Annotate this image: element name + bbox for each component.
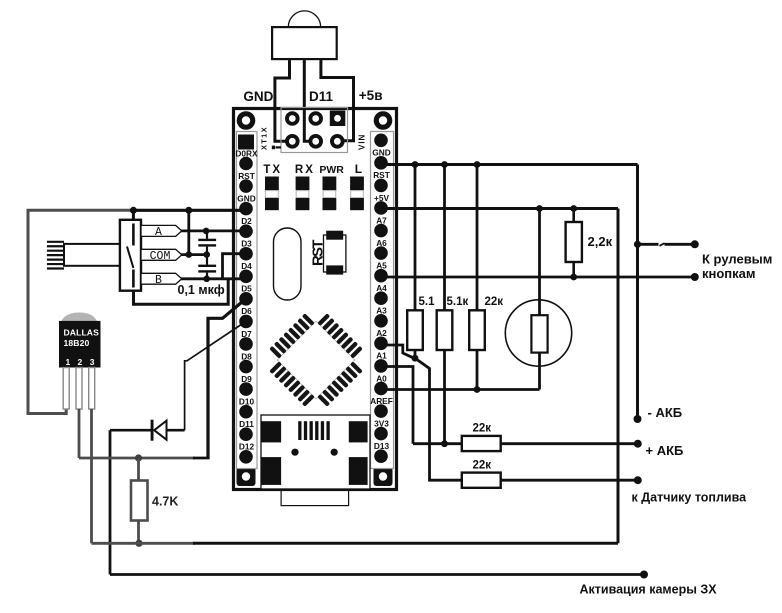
wire COM to cap midpoint [181, 253, 207, 256]
wire A0 rail to fuel gauge [381, 388, 540, 391]
capacitor C1 0,1 мкф (A-COM) [206, 231, 208, 239]
wire encoder bottom to B/D4 net [134, 279, 229, 305]
right pin A7 [374, 224, 388, 238]
left pin D5 [239, 292, 253, 306]
junction dot encoder frame to GND rail [130, 207, 137, 214]
wire 18B20 pin3 (+5V) down [90, 409, 93, 543]
crystal oval Y1 [274, 228, 302, 300]
wire GND rail left (gray): 18B20 pin1 up and over to board GND pin [28, 210, 135, 413]
terminal dot - АКБ [634, 415, 642, 423]
resistor R7 22к (fuel sender) [462, 473, 501, 488]
resistor R5 2,2к [572, 209, 575, 223]
wire encoder frame stub [132, 210, 135, 221]
junction dot COM vertical on GND rail [185, 207, 192, 214]
wire B to D4 [181, 277, 246, 280]
wire A1 to +АКБ 22к [381, 367, 413, 444]
wire +5V bottom line (gray part) [92, 542, 196, 545]
svg-text:2: 2 [78, 357, 83, 367]
ICSP pin 6 (bottom row) [330, 134, 345, 149]
svg-text:5.1к: 5.1к [447, 296, 469, 308]
junction dot B / C2 bottom [203, 276, 210, 283]
resistor R3 5.1к [443, 165, 446, 311]
svg-text:1: 1 [66, 357, 71, 367]
junction dot DQ / 4.7K top [135, 454, 142, 461]
right pin strip outline [371, 132, 394, 469]
junction dot R3 bottom on +АКБ line [441, 440, 448, 447]
wire A5 rail to steering line 2 [381, 276, 695, 279]
svg-text:кнопкам: кнопкам [702, 266, 756, 281]
USB tongue [281, 491, 349, 506]
svg-text:RX: RX [295, 164, 315, 176]
left pin RST [239, 179, 253, 193]
right pin AREF [374, 404, 388, 418]
LED PWR [323, 177, 337, 191]
LED L [350, 177, 364, 191]
svg-text:Активация камеры ЗХ: Активация камеры ЗХ [580, 583, 718, 597]
left pin D9 [239, 382, 253, 396]
LED RX [296, 177, 310, 191]
MCU U1 (QFP, rotated 45) [258, 302, 374, 418]
Arduino Nano board outline [234, 109, 397, 490]
LED TX [265, 177, 279, 191]
svg-text:PWR: PWR [319, 164, 344, 176]
junction dot 4.7K bottom / +5V line [135, 540, 142, 547]
mounting hole top-right [374, 111, 393, 130]
right pin RST [374, 179, 388, 193]
encoder terminal A arrow [141, 225, 182, 236]
wire A2 to R2 bottom [381, 345, 414, 358]
svg-text:B: B [155, 274, 162, 287]
left pin D4 [239, 270, 253, 284]
left pin D0RX [239, 157, 253, 171]
right pin GND [374, 156, 388, 170]
right pin D13 [374, 449, 388, 463]
sensor leg 2 [76, 368, 82, 410]
right pin +5V [374, 201, 388, 215]
right pin VIN [374, 134, 388, 148]
svg-text:22к: 22к [485, 296, 504, 308]
junction dot A2 / R2 / fuel divider [412, 355, 419, 362]
junction dot GND/R2 [412, 161, 419, 168]
wire +5V riser down [617, 209, 620, 544]
svg-text:18B20: 18B20 [64, 338, 90, 348]
wire GND riser down right side [636, 165, 639, 420]
junction dot A0 / R4 bottom [474, 386, 481, 393]
svg-text:3: 3 [90, 357, 95, 367]
svg-text:5.1: 5.1 [419, 296, 436, 308]
wire DQ horizontal (gray) [79, 457, 195, 460]
fuel gauge M1 (circle with resistor) [505, 300, 571, 366]
ICSP pin 4 (bottom row) [308, 134, 323, 149]
svg-text:COM: COM [150, 250, 171, 263]
left pin D12 [239, 450, 253, 464]
right pin A3 [374, 314, 388, 328]
USB connector J1 [261, 415, 370, 489]
junction dot COM / caps midpoint [203, 251, 210, 258]
right pin A1 [374, 359, 388, 373]
encoder wiper lever [127, 247, 133, 269]
junction dot A / C1 top [203, 228, 210, 235]
wire IR GND to ICSP pin [275, 61, 290, 141]
junction dot A5 / R5 bottom [570, 274, 577, 281]
junction dot +5V / R5 2,2к [570, 205, 577, 212]
wire diagonal to fuel sender divider [415, 358, 462, 480]
encoder contact bar upper [132, 224, 135, 246]
encoder shaft [64, 244, 120, 266]
left pin strip outline [237, 132, 258, 469]
ICSP pin 5 square pad (top row) [330, 111, 346, 127]
encoder contact bar lower [132, 270, 135, 288]
right pin A6 [374, 246, 388, 260]
svg-text:DALLAS: DALLAS [64, 327, 100, 337]
left pin D10 [239, 405, 253, 419]
junction dot COM vertical on COM wire [186, 251, 193, 258]
sensor leg 1 [63, 368, 69, 410]
wire steering buttons line 1 [638, 243, 659, 246]
svg-text:A: A [155, 226, 162, 239]
right pin A5 [374, 269, 388, 283]
wire A to D2 [181, 229, 246, 232]
left pin D7 [239, 337, 253, 351]
IR receiver U2 (dome + body) [288, 11, 320, 27]
diode VD1 [167, 429, 185, 432]
junction dot steering button line 1 [634, 241, 641, 248]
right pin A4 [374, 291, 388, 305]
svg-text:к Датчику топлива: к Датчику топлива [632, 491, 748, 505]
wire IR D11 to ICSP pin [304, 61, 313, 141]
terminal dot steering line 2 [691, 273, 699, 281]
wire activation line (Активация камеры ЗХ) [110, 573, 644, 576]
svg-text:0,1 мкф: 0,1 мкф [178, 283, 225, 297]
mounting hole top-left [237, 111, 256, 130]
encoder S1 knurled knob cap [47, 241, 64, 243]
wire 18B20 pin2 (DQ) down [78, 409, 81, 458]
junction dot GND/R4 [474, 161, 481, 168]
wire diode cathode down to activation line [109, 430, 112, 574]
wire DQ horizontal (black part) [193, 457, 210, 460]
svg-text:VIN: VIN [358, 134, 367, 150]
ICSP pin 2 (bottom row) [285, 134, 300, 149]
svg-text:4.7K: 4.7K [152, 495, 178, 509]
wire GND rail right from board GND pin [381, 163, 638, 166]
sensor leg 3 [89, 368, 95, 410]
wire fuel sender line right lead [501, 479, 638, 482]
wire D5 to 1-wire data (DQ) net [208, 300, 245, 459]
mounting hole bottom-left [237, 467, 256, 486]
right pin 3V3 [374, 427, 388, 441]
RST button SW1 [324, 235, 346, 272]
junction dot GND/R3 [441, 161, 448, 168]
left pin D11 [239, 427, 253, 441]
svg-text:22к: 22к [473, 459, 492, 471]
wire GND rail left (black part to GND pin) [131, 209, 246, 212]
wire +АКБ line right lead [501, 442, 638, 445]
svg-text:TX: TX [263, 164, 282, 176]
svg-text:GND: GND [243, 89, 273, 104]
svg-text:XT1X: XT1X [259, 126, 268, 150]
wire IR +5в to ICSP pin [321, 61, 354, 141]
wire +5V bottom line (black part to right riser) [193, 542, 618, 545]
junction dot +5V / fuel gauge [536, 205, 543, 212]
left pin TX1 square pad [238, 135, 254, 150]
wire D3 jog down to B net [223, 254, 247, 279]
svg-text:L: L [355, 162, 362, 176]
svg-text:22к: 22к [473, 423, 492, 435]
left pin D3 [239, 247, 253, 261]
terminal dot к Датчику топлива [634, 476, 642, 484]
ICSP pin1 marker [272, 146, 275, 150]
resistor R1 4.7K [137, 458, 140, 481]
ICSP pin 1 (top row) [285, 111, 300, 126]
resistor R4 22к [476, 165, 479, 311]
left pin D2 [239, 224, 253, 238]
svg-text:2,2к: 2,2к [588, 234, 613, 249]
right pin A2 [374, 337, 388, 351]
left pin GND [239, 202, 253, 216]
encoder terminal B arrow [141, 273, 182, 284]
right pin A0 [374, 382, 388, 396]
ICSP header outline [281, 108, 348, 153]
svg-text:- АКБ: - АКБ [648, 405, 683, 420]
encoder terminal COM arrow [141, 249, 182, 260]
ICSP pin 3 (top row) [308, 111, 323, 126]
svg-text:D11: D11 [309, 89, 334, 104]
svg-text:+5в: +5в [359, 88, 383, 103]
wire COM to GND rail vertical [187, 210, 190, 254]
wire +5V rail from board +5V pin [381, 207, 618, 210]
mounting hole bottom-right [374, 467, 393, 486]
wire +АКБ line left lead [413, 442, 462, 445]
left pin D6 [239, 315, 253, 329]
capacitor C2 0,1 мкф (COM-B) [206, 255, 208, 265]
resistor R2 5.1 [414, 165, 417, 311]
sensor U3 DALLAS 18B20 body [60, 313, 99, 331]
terminal dot steering line 1 [691, 240, 699, 248]
left pin D8 [239, 360, 253, 374]
encoder body [120, 220, 141, 291]
terminal dot activation [640, 571, 648, 579]
wire D6 to diode anode (thin) [185, 322, 245, 430]
terminal dot + АКБ [634, 440, 642, 448]
svg-text:К рулевым: К рулевым [702, 252, 772, 267]
svg-text:+ АКБ: + АКБ [646, 443, 684, 458]
resistor R6 22к (+АКБ) [462, 436, 501, 451]
